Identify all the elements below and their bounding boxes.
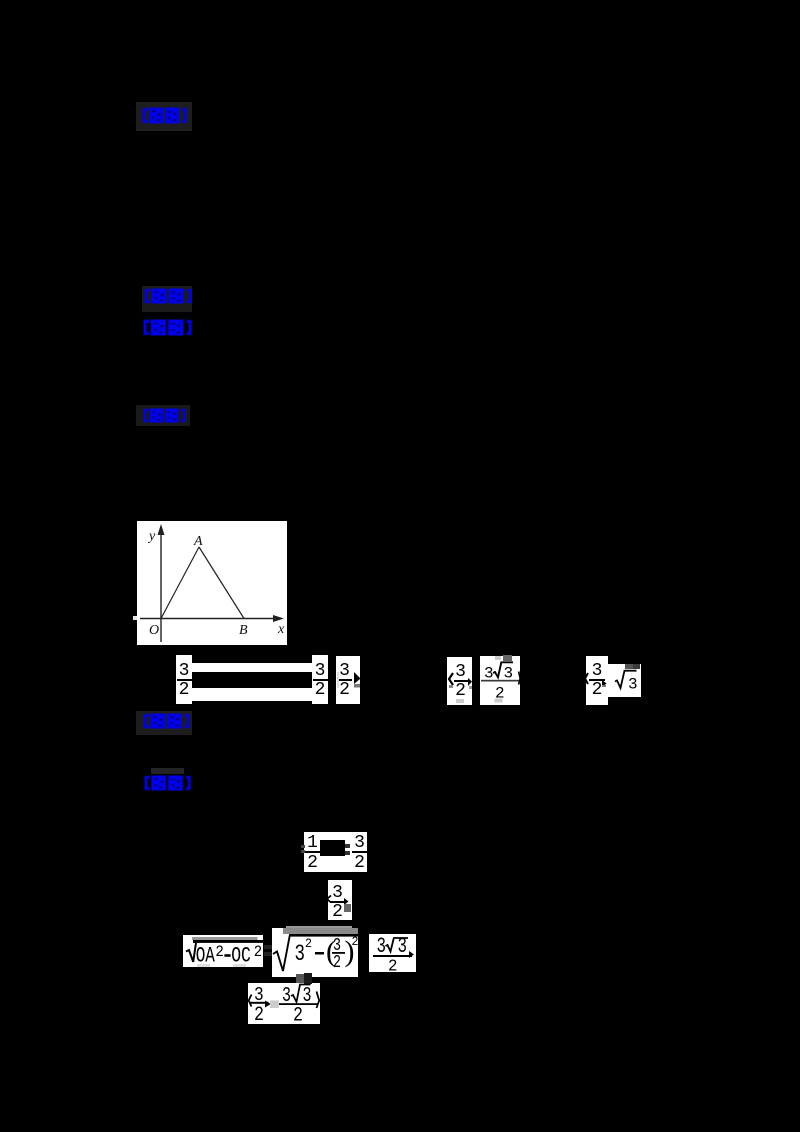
svg-text:2: 2 — [388, 958, 398, 973]
row1 box7 sqrt3 — [608, 655, 642, 697]
row4 boxC white — [369, 934, 416, 972]
minus — [224, 954, 230, 957]
row1 box4 comma mark — [468, 678, 472, 686]
row3 paren-left mark — [326, 895, 332, 903]
row1 box5 white — [480, 656, 520, 705]
gray halo above vinculum — [192, 937, 258, 940]
triangle side AB — [199, 547, 244, 619]
row1 box3 comma mark — [354, 672, 361, 688]
fraction bar — [373, 955, 412, 957]
row5 contents (3/2 , 3root3/2) — [248, 983, 321, 1024]
row5 box2 white — [273, 983, 320, 1024]
svg-text:2: 2 — [254, 943, 262, 961]
triangle side OA — [161, 547, 199, 619]
tick outside panel left of x-axis — [133, 616, 137, 620]
row4 boxC contents 3root3/2 — [369, 934, 416, 972]
label answer-5 background halo — [136, 711, 192, 735]
svg-text:3: 3 — [484, 665, 494, 683]
diagram white panel — [137, 521, 287, 645]
row4 equals gray between A and B — [264, 945, 272, 949]
row2 fraction 3/2 — [352, 832, 367, 871]
row2 equation box white — [304, 832, 367, 872]
y-axis — [160, 533, 162, 642]
label analysis-6 blue text blob — [144, 775, 191, 791]
row4 boxB sqrt(3^2-(3/2)^2) — [272, 928, 359, 977]
row1 box7 white — [608, 664, 641, 697]
comma mark — [265, 1001, 271, 1008]
label answer-1 blue text blob — [142, 107, 187, 124]
row1 box2 white — [312, 655, 328, 704]
gray block between — [270, 1000, 279, 1008]
row3 box white — [328, 880, 352, 920]
row1 box3 white — [336, 656, 360, 704]
row1 white strip upper — [192, 663, 312, 672]
radical sign over 3 — [386, 938, 409, 952]
row5 black block above box2 — [304, 973, 312, 984]
blue label glyph-blob template — [0, 0, 1, 1]
row1 box1 white — [176, 655, 192, 704]
small fraction bar — [332, 952, 345, 954]
row1 box3 fraction 3/2 — [336, 656, 353, 698]
row2 equals sign gray — [345, 844, 350, 848]
row1 box6 comma mark — [602, 680, 607, 688]
x-axis — [140, 618, 279, 620]
x-axis arrowhead — [273, 615, 284, 622]
svg-text:2: 2 — [305, 936, 312, 951]
svg-text:2: 2 — [333, 953, 341, 973]
row2 tiny equals at left edge — [301, 845, 305, 848]
row4 equals bold black between B and C — [360, 944, 369, 949]
svg-text:2: 2 — [215, 943, 224, 961]
svg-text:A: A — [193, 534, 203, 549]
row1 box6 gray mark below comma — [602, 685, 607, 688]
row5 box1 white — [248, 983, 273, 1024]
minus sign — [315, 952, 324, 955]
row2 fraction 1/2 — [305, 832, 320, 871]
svg-text:O: O — [149, 623, 159, 638]
paren-left mark — [249, 995, 252, 1007]
row1 box3 left edge light strip — [337, 672, 339, 688]
svg-text:y: y — [147, 529, 156, 544]
label analysis-3 blue text blob — [143, 319, 192, 336]
light smudge bottom — [495, 699, 503, 703]
fraction bar — [481, 680, 519, 682]
row2 black redaction rectangle — [320, 840, 345, 856]
svg-text:OC: OC — [231, 944, 251, 968]
light smudge top-left — [495, 656, 501, 660]
gray smudge on box top edge — [625, 664, 633, 669]
row1 box5 contents 3root3/2 — [480, 655, 521, 705]
radical hook — [186, 942, 196, 962]
row3 gray blob right — [344, 904, 351, 912]
row1 box6 white — [586, 656, 608, 705]
row1 box2 fraction 3/2 — [312, 655, 328, 698]
row4 boxA sqrt(OA^2-OC^2) — [183, 935, 263, 967]
vinculum — [289, 934, 359, 937]
row1 box4 gray mark under paren — [449, 685, 453, 688]
label answer-4 blue text blob — [143, 408, 186, 423]
radical sign over 3 — [291, 985, 311, 1003]
row5 gray block above box2 — [296, 974, 304, 983]
label answer-4 background halo — [136, 405, 190, 426]
row3 fraction 3/2 — [330, 880, 345, 920]
row1 box1 fraction 3/2 — [176, 655, 192, 698]
row4 boxB gray halo strip above — [286, 926, 352, 929]
radical sign over 3 — [493, 662, 513, 677]
row1 box4 white — [447, 657, 472, 705]
vinculum — [193, 940, 263, 943]
row1 white strip lower — [192, 688, 312, 701]
bottom smudges — [197, 964, 210, 967]
svg-text:3: 3 — [628, 676, 638, 694]
label answer-1 background halo — [136, 102, 192, 131]
gray vinculum halo — [283, 928, 358, 934]
row1 box4 fraction 3/2 — [453, 657, 468, 699]
gray smudge top — [503, 655, 512, 661]
box2 fraction bar — [279, 1003, 318, 1005]
svg-text:3: 3 — [504, 665, 514, 683]
radical sign — [615, 671, 637, 688]
row1 box4 light smudge bottom — [456, 699, 464, 703]
row1 box4 gray mark under comma — [469, 686, 472, 689]
y-axis arrowhead — [158, 524, 165, 535]
row1 box4 paren-left mark — [448, 672, 454, 686]
paren-right mark — [519, 672, 521, 685]
row1 box6 paren-left mark — [584, 672, 589, 685]
row4 boxB white — [272, 928, 358, 977]
paren-right mark — [317, 992, 320, 1009]
label answer-2 background halo — [142, 286, 192, 312]
diagram axes and triangle svg — [137, 521, 287, 645]
svg-text:2: 2 — [254, 1004, 264, 1024]
comma mark — [409, 951, 414, 958]
svg-text:x: x — [277, 622, 285, 637]
row3 comma mark — [344, 898, 349, 905]
radical hook — [273, 935, 290, 971]
svg-text:2: 2 — [352, 934, 359, 949]
row1 box6 fraction 3/2 — [589, 656, 605, 698]
label answer-2 blue text blob — [144, 288, 192, 304]
svg-text:OA: OA — [196, 944, 216, 968]
svg-text:2: 2 — [293, 1004, 303, 1024]
label answer-5 blue text blob — [143, 713, 190, 729]
svg-text:B: B — [239, 623, 248, 638]
row4 boxA white — [183, 935, 263, 967]
box1 fraction bar — [250, 1002, 269, 1004]
label analysis-6 gray strip above — [151, 768, 184, 774]
svg-text:3: 3 — [295, 941, 306, 967]
